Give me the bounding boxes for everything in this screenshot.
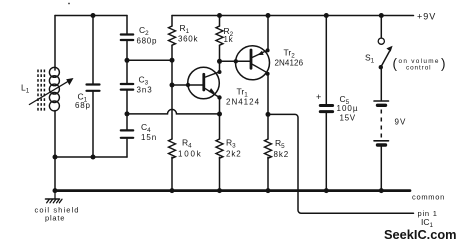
svg-text:(: ( — [393, 56, 398, 71]
node Tr2 emitter — [266, 48, 270, 52]
node common battery — [379, 188, 384, 193]
wire Tr2 base — [220, 60, 250, 62]
node tank top / C1 junction — [91, 13, 96, 18]
node Tr1 collector — [218, 70, 222, 74]
node C2 tap left — [125, 58, 130, 63]
svg-text:68p: 68p — [75, 101, 91, 110]
svg-text:15n: 15n — [141, 133, 157, 142]
node tap at C3-C4 — [125, 111, 130, 116]
svg-text:360k: 360k — [178, 35, 198, 44]
node R2 to Tr2 base tee — [217, 59, 222, 64]
svg-text:R3: R3 — [226, 137, 236, 149]
tuning arrow through L1 — [29, 78, 73, 105]
wire emitter to R3 — [219, 98, 221, 140]
svg-text:15V: 15V — [340, 113, 356, 122]
svg-text:100k: 100k — [178, 149, 203, 158]
wire Tr2 collector down — [267, 74, 269, 115]
svg-text:L1: L1 — [21, 83, 30, 95]
resistor R4 — [169, 139, 176, 191]
battery 9V cell 1 — [374, 101, 389, 105]
wire tank bottom — [55, 156, 127, 158]
svg-text:SeekIC.com: SeekIC.com — [384, 227, 457, 242]
resistor R3 — [216, 139, 223, 191]
node rail Tr2 emitter — [266, 13, 271, 18]
wire C1 bottom lead — [92, 92, 94, 157]
wire C1 top lead — [92, 16, 94, 84]
node C1 tank bottom — [91, 155, 96, 160]
node rail R2 — [217, 13, 222, 18]
coil shield dashed lines — [38, 70, 44, 113]
svg-text:R5: R5 — [275, 138, 285, 150]
svg-text:C4: C4 — [141, 122, 151, 134]
svg-text:): ) — [441, 56, 446, 71]
svg-text:9V: 9V — [395, 117, 407, 126]
node rail C5 — [324, 13, 329, 18]
wire common rail — [55, 189, 410, 192]
node common C5 — [324, 188, 329, 193]
resistor R5 — [265, 114, 272, 190]
node rail S1 — [379, 13, 384, 18]
note on volume control — [393, 56, 446, 71]
inductor L1 — [49, 67, 59, 111]
node base wire at circle — [186, 83, 190, 87]
wire R1 to base node — [171, 60, 173, 85]
node Tr1 base tee — [170, 83, 175, 88]
wire C5 bottom lead — [325, 113, 327, 191]
wire L1 to common rail — [54, 157, 56, 191]
resistor R1 — [169, 16, 176, 61]
ground coil shield plate — [46, 191, 63, 203]
wire C2 tap — [127, 59, 172, 61]
node L1 tank bottom — [53, 155, 58, 160]
capacitor C4 — [121, 130, 133, 137]
node Tr2 collector — [266, 72, 270, 76]
node common L1 — [53, 188, 58, 193]
svg-text:R1: R1 — [180, 23, 190, 35]
node Tr1 emitter — [217, 95, 221, 99]
svg-text:2N4124: 2N4124 — [226, 97, 260, 106]
svg-text:8k2: 8k2 — [274, 150, 290, 159]
capacitor C1 — [87, 85, 100, 91]
wire C2-C3 segment — [126, 41, 128, 83]
node common R3 — [217, 188, 222, 193]
wire L1 top lead — [54, 16, 56, 71]
label coil shield plate — [35, 205, 80, 222]
wire +9V top rail — [172, 15, 414, 17]
capacitor C3 — [121, 84, 133, 90]
svg-text:+: + — [316, 92, 321, 102]
battery 9V cell 2 — [374, 141, 389, 145]
svg-text:Tr2: Tr2 — [284, 47, 296, 59]
wire battery to common — [380, 147, 382, 191]
wire S1 top lead — [380, 16, 382, 38]
svg-text:C2: C2 — [139, 25, 149, 37]
node C2 tap at R1 — [170, 58, 175, 63]
node base wire at Tr2 circle — [234, 59, 238, 63]
wire L1 bottom lead — [54, 111, 56, 158]
svg-text:2N4126: 2N4126 — [275, 59, 304, 68]
capacitor C2 — [121, 35, 133, 41]
svg-text:+9V: +9V — [417, 12, 436, 22]
node common R4 — [170, 188, 175, 193]
wire Tr2 emitter to rail — [267, 16, 269, 51]
wire base node to R4 — [171, 85, 173, 139]
wire C5 top lead — [325, 16, 327, 105]
node common R5 — [266, 188, 271, 193]
svg-text:control: control — [406, 64, 431, 71]
svg-text:2k2: 2k2 — [226, 149, 242, 158]
svg-text:S1: S1 — [365, 52, 375, 64]
svg-text:680p: 680p — [137, 37, 158, 46]
wire tank top — [55, 15, 127, 17]
svg-text:1k: 1k — [224, 35, 234, 44]
svg-text:plate: plate — [45, 213, 65, 222]
battery dashed link — [380, 110, 382, 140]
node tap at emitter — [217, 112, 222, 117]
resistor R2 — [216, 16, 223, 72]
transistor Tr1 — [188, 67, 220, 99]
svg-text:common: common — [412, 193, 445, 202]
svg-text:100µ: 100µ — [337, 104, 359, 113]
transistor Tr2 — [236, 46, 270, 80]
ink speck — [68, 3, 70, 5]
wire C4 bottom lead — [126, 139, 128, 157]
wire capacitive tap with hop over R4 line — [127, 109, 220, 114]
svg-text:3n3: 3n3 — [137, 85, 153, 94]
node output junction — [266, 112, 271, 117]
switch S1 — [378, 38, 392, 69]
wire Tr1 base — [172, 84, 203, 86]
capacitor C5 — [320, 106, 332, 112]
wire C3-C4 segment — [126, 91, 128, 130]
svg-text:R4: R4 — [182, 137, 192, 149]
wire output to pin 1 — [268, 114, 414, 213]
wire C2 top lead — [126, 16, 128, 34]
wire S1 to battery — [380, 67, 382, 100]
